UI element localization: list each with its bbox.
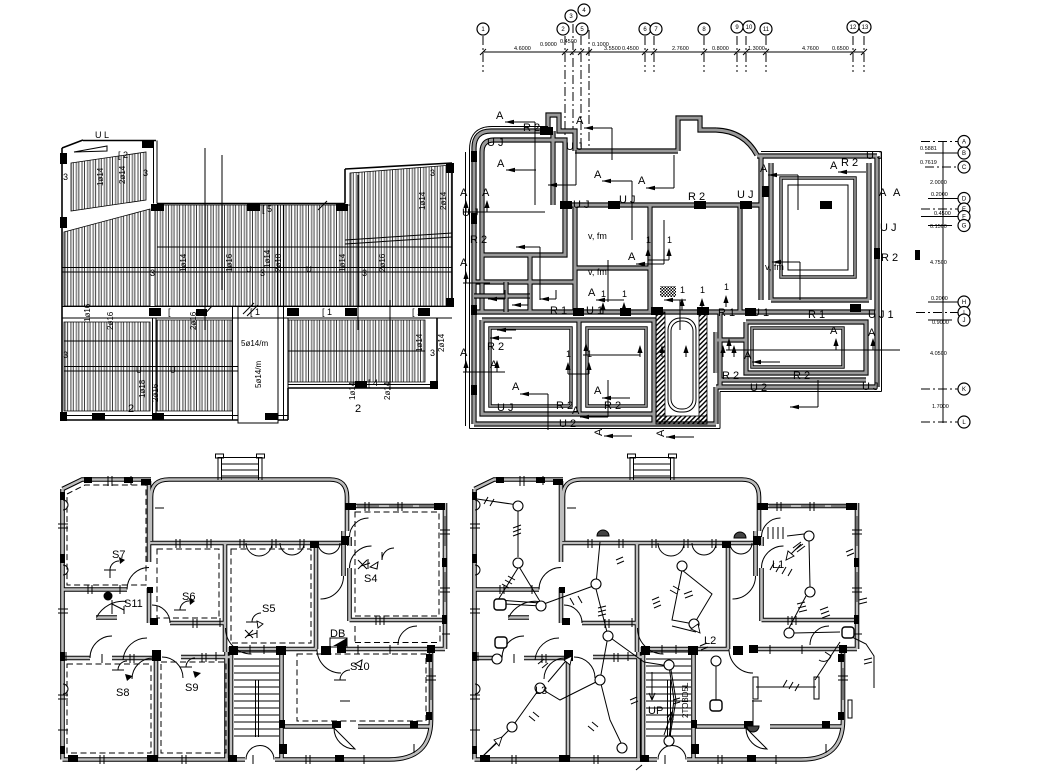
svg-text:U 2: U 2 [750,382,767,394]
joist panel upper-right wing [350,165,452,306]
svg-text:1ø14: 1ø14 [96,167,105,186]
svg-text:U J: U J [573,199,590,211]
joist panel left-mid band [64,209,150,306]
outer wall left [61,148,63,420]
level bubble B [958,147,970,159]
svg-text:A: A [879,187,887,199]
level line A [921,141,958,143]
stair shaft left wall [232,306,234,420]
svg-text:2ø16: 2ø16 [378,253,387,272]
room S4 dashed offset [355,512,439,616]
svg-text:1ø16: 1ø16 [225,253,234,272]
svg-text:A: A [460,257,468,269]
svg-text:R 2: R 2 [841,157,858,169]
inner heavy rect right-bottom room [752,328,843,367]
level bubble K [958,383,970,395]
svg-text:3: 3 [430,348,435,358]
svg-text:U J: U J [462,207,479,219]
svg-text:A: A [572,405,580,417]
plan2 leader arrows (left-pointing) [488,110,866,439]
svg-text:1: 1 [587,349,592,359]
svg-text:1ø14: 1ø14 [338,253,347,272]
level bubble C [958,161,970,173]
middle band top edge [157,203,345,205]
column blocks [471,127,920,395]
svg-text:0.6500: 0.6500 [832,46,849,52]
grid line 1 [482,36,484,72]
svg-text:A: A [638,175,646,187]
wall fixtures (semicircle) [597,530,609,536]
grid bubble 7 [650,23,662,35]
svg-text:1ø14: 1ø14 [415,333,424,352]
inner offset rects bottom rooms [490,328,571,406]
svg-text:v, fm: v, fm [588,231,607,241]
svg-text:0.9000: 0.9000 [932,320,949,326]
svg-text:R 1: R 1 [550,305,567,317]
grid bubble 13 [859,21,871,33]
svg-text:3: 3 [150,268,155,278]
grid line 2 [564,36,566,150]
svg-text:A: A [830,325,838,337]
svg-text:U J: U J [497,402,514,414]
joist panel lower-mid [157,320,232,411]
svg-text:1: 1 [724,282,729,292]
svg-text:1: 1 [646,235,651,245]
svg-text:2ø16: 2ø16 [106,311,115,330]
grid line 7 [703,36,705,72]
vertical dim line [942,141,944,423]
level line K [921,388,958,390]
room S10 dashed offset [297,654,426,721]
svg-text:5ø14/m: 5ø14/m [254,361,263,388]
lower-left beam double line [64,366,278,368]
svg-text:A: A [593,428,605,436]
level bubble J [958,314,970,326]
switch symbol S7 [104,561,119,578]
svg-text:L2: L2 [704,635,716,647]
1 up-arrows [566,235,729,359]
svg-text:[ 4: [ 4 [368,378,378,388]
svg-text:1: 1 [601,289,606,299]
svg-text:1ø14: 1ø14 [348,381,357,400]
svg-text:G: G [962,224,967,230]
svg-text:H: H [962,300,966,306]
svg-text:A: A [868,327,876,339]
hash marks on wires [484,497,872,721]
svg-text:2.7600: 2.7600 [672,46,689,52]
svg-text:2.0000: 2.0000 [930,180,947,186]
wing divider beam [345,233,452,240]
stair inner loop [668,318,696,412]
svg-text:R 2: R 2 [722,370,739,382]
svg-text:UP: UP [648,705,663,717]
svg-text:v, fm: v, fm [765,262,784,272]
svg-text:A: A [655,429,667,437]
svg-text:A: A [893,187,901,199]
grid bubble 9 [731,21,743,33]
svg-text:S8: S8 [116,687,129,699]
svg-text:U J: U J [487,137,504,149]
bottom edge inner line [62,415,288,417]
svg-text:2ø18: 2ø18 [274,253,283,272]
lower band wall x152-156 [152,318,154,420]
svg-text:0.4500: 0.4500 [560,39,577,45]
inner heavy room rect top-right [781,178,855,277]
upper-right wing left edge [344,169,346,204]
svg-text:A: A [628,251,636,263]
level bubble L [958,416,970,428]
switch symbol S5 [246,613,261,622]
svg-text:U J: U J [737,189,754,201]
right edge upper-left block [153,141,155,204]
dimension values [514,39,849,52]
ground floor switch plan (bottom-left) walls [58,454,450,764]
svg-text:L3: L3 [535,685,547,697]
svg-text:1ø16: 1ø16 [83,303,92,322]
svg-text:4.7500: 4.7500 [930,260,947,266]
svg-text:R 2: R 2 [793,370,810,382]
svg-text:1: 1 [622,289,627,299]
inner thin rect top-right room [788,185,848,270]
diagonal tick 3 [318,201,327,210]
level line L [921,421,958,423]
svg-text:1: 1 [680,285,685,295]
svg-text:2: 2 [355,403,361,415]
stair shaft hatched bottom [656,416,707,424]
svg-text:3.5500: 3.5500 [604,46,621,52]
dashed strip room under S4 [355,626,440,643]
mid vertical beam [277,205,279,306]
long joist cut line 1 [204,148,206,330]
main beam axis double line [62,267,452,269]
svg-text:13: 13 [862,25,869,31]
svg-text:R 2: R 2 [688,191,705,203]
svg-text:1ø14: 1ø14 [263,249,272,268]
svg-text:J: J [963,318,966,324]
walls outer+inner (gray core) [474,115,877,424]
svg-text:A: A [588,287,596,299]
level line E [921,208,958,210]
outlet squares [494,599,854,711]
long joist cut line 3 [357,175,359,330]
svg-text:A: A [460,187,468,199]
level line F [921,216,958,218]
svg-text:A: A [760,163,768,175]
svg-text:[ 2: [ 2 [118,150,128,160]
long joist cut line 4 [389,300,391,390]
svg-text:3: 3 [260,268,265,278]
svg-text:R 2: R 2 [487,341,504,353]
level bubble F [958,211,970,223]
grid line 8 [736,36,738,72]
svg-text:v, fm: v, fm [588,267,607,277]
grid line 12 [852,36,854,72]
grid line 5 [588,30,590,150]
step connector [287,388,289,420]
svg-text:2ø14: 2ø14 [439,191,448,210]
svg-text:2TOBD5L: 2TOBD5L [681,682,690,718]
svg-text:U J 1: U J 1 [868,309,894,321]
grid bubble 2 [557,23,569,35]
svg-text:S4: S4 [364,573,377,585]
room S7 dashed offset [67,485,146,585]
svg-text:[ 1: [ 1 [322,307,332,317]
svg-text:4.6000: 4.6000 [514,46,531,52]
joist panel lower-left [64,322,150,411]
svg-text:S5: S5 [262,603,275,615]
check hatch patch [660,286,676,297]
grid bubble 12 [847,21,859,33]
svg-text:D: D [962,197,967,203]
wing bottom inner line [288,384,437,386]
svg-text:U: U [136,366,142,375]
stair shaft right wall [277,306,279,423]
svg-text:3: 3 [63,172,68,182]
beam band top line [62,306,452,308]
svg-text:A: A [594,385,602,397]
svg-text:U J: U J [862,381,879,393]
grid bubble 10 [743,21,755,33]
svg-text:[ 1: [ 1 [412,307,422,317]
svg-text:A: A [744,350,752,362]
svg-text:4.0500: 4.0500 [930,351,947,357]
svg-text:F: F [962,215,966,221]
level bubble G [958,220,970,232]
svg-text:11: 11 [763,27,770,33]
svg-text:C: C [962,165,967,171]
svg-text:U 1: U 1 [586,305,603,317]
svg-text:L1: L1 [772,559,784,571]
dimension line [483,51,864,53]
grid bubble 6 [639,23,651,35]
svg-text:U 2: U 2 [559,418,576,430]
diagonal tick 1 [203,306,212,316]
svg-text:U J: U J [619,194,636,206]
level values [920,146,951,410]
tick marks on dim line [480,49,867,55]
lower wing bottom edge [288,387,437,389]
top edge upper-left block [83,140,156,142]
svg-text:1ø14: 1ø14 [418,191,427,210]
svg-text:A: A [594,169,602,181]
grid line 4 [580,36,582,150]
column blocks [60,153,67,164]
level bubble A [958,136,970,148]
right edge lower wing [436,318,438,388]
svg-text:U J: U J [880,222,897,234]
switch symbol S11 [112,600,124,614]
grid bubble 8 [698,23,710,35]
svg-text:S9: S9 [185,682,198,694]
room S5 dashed offset [231,549,311,643]
svg-text:0.9000: 0.9000 [540,42,557,48]
svg-text:0.2000: 0.2000 [931,192,948,198]
svg-text:0.2000: 0.2000 [931,296,948,302]
lamp circles [492,501,815,753]
svg-text:A: A [497,158,505,170]
grid line 13 [863,36,865,72]
svg-text:1ø18: 1ø18 [138,379,147,398]
text labels [460,122,901,430]
level bubble E [958,203,970,215]
level line G [928,225,952,227]
grid bubble 5 [576,23,588,35]
svg-text:K: K [962,387,966,393]
svg-text:1: 1 [566,349,571,359]
svg-text:3: 3 [143,168,148,178]
switch symbol S6 [174,601,189,610]
svg-text:A: A [496,110,504,122]
svg-text:R 1: R 1 [718,307,735,319]
level line B [925,152,958,154]
svg-text:2ø14: 2ø14 [118,165,127,184]
long joist cut line 2 [221,155,223,290]
grid line 3 [572,24,574,150]
svg-text:A: A [576,115,584,127]
grid line 9 [765,36,767,72]
svg-text:1.7000: 1.7000 [932,404,949,410]
outer offset boundary lines [466,127,882,429]
svg-text:3: 3 [362,268,367,278]
svg-text:0.8000: 0.8000 [712,46,729,52]
level bubble H [958,296,970,308]
svg-text:S7: S7 [112,549,125,561]
svg-text:2ø16: 2ø16 [151,383,160,402]
svg-text:U: U [306,265,312,274]
svg-text:A: A [962,140,966,146]
svg-text:[ 5: [ 5 [262,204,272,214]
grid bubble 1 [477,23,489,35]
svg-text:A: A [512,381,520,393]
grid bubble 3 [565,10,577,22]
svg-text:12: 12 [850,25,857,31]
DB board symbol [333,638,347,646]
ramp wedge [74,146,107,152]
diagonal tick 2 [243,303,254,314]
svg-text:0.4500: 0.4500 [934,211,951,217]
svg-text:R 2: R 2 [523,122,540,134]
svg-text:2ø14: 2ø14 [437,333,446,352]
room S6 dashed offset [157,549,219,618]
stair shaft hatched right wall [699,312,707,424]
svg-text:A: A [460,347,468,359]
electrical wiring plan (bottom-right) walls [470,454,862,764]
svg-text:2ø14: 2ø14 [383,381,392,400]
svg-text:3: 3 [430,168,435,178]
level line H [928,301,958,303]
svg-text:U J: U J [566,141,583,153]
svg-text:0.1500: 0.1500 [930,224,947,230]
svg-text:2ø16: 2ø16 [189,311,198,330]
bottom edge [62,419,288,421]
upper-right wing top edge [345,163,452,169]
level line I [916,312,958,314]
right edge upper [451,163,453,306]
stair void box [238,318,278,423]
svg-text:1.3000: 1.3000 [748,46,765,52]
rebar labels [83,165,448,402]
svg-text:2: 2 [128,403,134,415]
bottom-left arrow [482,740,500,757]
joist panel mid band [155,205,350,306]
A up-arrows with leaders [463,211,545,213]
svg-text:0.5881: 0.5881 [920,146,937,152]
grid bubble 4 [578,4,590,16]
socket bars [753,677,758,699]
level bubble D [958,193,970,205]
svg-text:0.7619: 0.7619 [920,160,937,166]
svg-text:U L: U L [95,130,109,140]
joist panel lower-right [288,320,425,382]
svg-text:A: A [830,160,838,172]
stair shaft hatched left wall [656,312,665,424]
svg-text:U J: U J [866,150,883,162]
svg-text:R 1: R 1 [808,309,825,321]
grid bubble 11 [760,23,772,35]
level line C [925,166,958,168]
svg-text:U 1: U 1 [752,307,769,319]
bubble numbers [481,8,869,33]
level bubble I [958,307,970,319]
level line D [928,198,958,200]
switch symbol S10 [334,670,350,680]
grid line 6 [644,36,646,72]
room S9 dashed offset [161,662,226,753]
svg-text:U: U [246,265,252,274]
svg-text:R 2: R 2 [881,252,898,264]
svg-text:U: U [170,366,176,375]
svg-text:R 2: R 2 [604,400,621,412]
svg-text:4.7600: 4.7600 [802,46,819,52]
svg-text:B: B [962,151,966,157]
left small-room cluster dividers [474,282,530,312]
svg-text:R 2: R 2 [556,400,573,412]
switch symbol S9 [180,658,195,667]
svg-text:S11: S11 [124,598,143,610]
svg-text:1ø14: 1ø14 [179,253,188,272]
beam band bottom line [62,317,452,319]
svg-text:A: A [482,187,490,199]
svg-text:10: 10 [746,25,753,31]
joist panel upper-left [71,152,146,211]
outer bevel top-left [62,140,83,148]
svg-text:3: 3 [63,350,68,360]
svg-text:1: 1 [700,285,705,295]
stair down arrow [649,672,655,700]
svg-text:5ø14/m: 5ø14/m [241,339,268,348]
svg-text:R 2: R 2 [470,234,487,246]
wire runs [477,499,518,557]
switch symbol S8 [112,661,127,670]
svg-text:E: E [962,207,966,213]
svg-text:0.4500: 0.4500 [622,46,639,52]
room S8 dashed offset [67,664,151,753]
level line J [928,319,952,321]
svg-text:1: 1 [667,235,672,245]
switch symbol S4 [382,548,394,560]
lower band wall x288 [287,318,289,388]
